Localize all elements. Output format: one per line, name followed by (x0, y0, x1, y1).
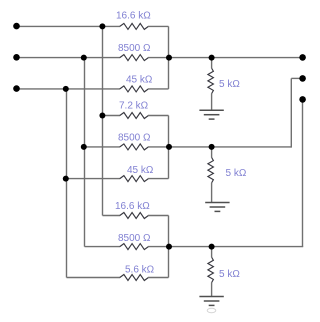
faint ellipse artifact under ground 3 (207, 308, 216, 312)
wire lead-out R5 (148, 146, 169, 148)
junction node J3 (63, 86, 69, 92)
group3 right bus wire (168, 216, 170, 278)
svg-text:5 kΩ: 5 kΩ (219, 79, 240, 90)
junction node J6 (99, 113, 105, 119)
input terminal 1 (13, 23, 20, 30)
resistor R6 value 45 kohm (120, 176, 149, 182)
left input bus wire C (66, 89, 68, 278)
svg-text:16.6 kΩ: 16.6 kΩ (116, 11, 151, 22)
junction node J2 (81, 55, 87, 61)
svg-text:45 kΩ: 45 kΩ (127, 165, 154, 176)
wire lead-out R3 (148, 88, 169, 90)
wire lead-out R9 (148, 277, 169, 279)
resistor R5 value 8500 ohm (120, 144, 149, 150)
wire: group2 riser to output terminal 2 (290, 78, 292, 147)
svg-text:8500 Ω: 8500 Ω (118, 133, 151, 144)
output terminal 1 (299, 54, 306, 61)
junction node J4 (166, 55, 172, 61)
resistor R7 value 16.6 kohm (120, 213, 149, 219)
junction node J10 (209, 144, 215, 150)
wire: RS2 bottom lead (211, 183, 213, 203)
junction node J12 (209, 244, 215, 250)
wire: group3 riser to output terminal 3 (302, 99, 304, 246)
wire: RS1 top lead (211, 58, 213, 69)
svg-text:8500 Ω: 8500 Ω (118, 43, 151, 54)
wire: RS1 bottom lead (211, 94, 213, 111)
wire lead-out R2 (148, 57, 169, 59)
svg-text:7.2 kΩ: 7.2 kΩ (119, 101, 149, 112)
resistor R8 value 8500 ohm (120, 244, 149, 250)
wire lead-in R1 (17, 25, 121, 27)
svg-text:5.6 kΩ: 5.6 kΩ (125, 265, 155, 276)
left input bus wire B (84, 58, 86, 247)
resistor RS3 5 kohm shunt (208, 257, 214, 283)
resistor R1 value 16.6 kohm (120, 23, 149, 29)
resistor RS1 5 kohm shunt (208, 68, 214, 94)
resistor RS2 5 kohm shunt (208, 157, 214, 183)
group2 right bus wire (168, 116, 170, 179)
output terminal 3 (299, 96, 306, 103)
input terminal 3 (13, 85, 20, 92)
ground (199, 110, 223, 119)
junction node J5 (209, 55, 215, 61)
wire lead-out R4 (148, 115, 169, 117)
junction node J11 (166, 244, 172, 250)
wire lead-out R6 (148, 178, 169, 180)
wire lead-in R7 (103, 215, 121, 217)
wire: group2 output row (169, 146, 292, 148)
wire: group3 output row (169, 246, 304, 248)
svg-text:16.6 kΩ: 16.6 kΩ (115, 201, 150, 212)
wire lead-in R6 (67, 178, 121, 180)
wire lead-out R8 (148, 246, 169, 248)
wire lead-in R9 (67, 277, 121, 279)
wire: RS2 top lead (211, 147, 213, 158)
junction node J9 (166, 144, 172, 150)
input terminal 2 (13, 54, 20, 61)
resistor R9 value 5.6 kohm (120, 275, 149, 281)
wire lead-in R5 (85, 146, 121, 148)
wire lead-in R2 (17, 57, 121, 59)
ground (199, 297, 223, 306)
svg-text:5 kΩ: 5 kΩ (219, 269, 240, 280)
group1 right bus wire (168, 26, 170, 89)
resistor R2 value 8500 ohm (120, 55, 149, 61)
wire lead-in R8 (85, 246, 121, 248)
svg-text:45 kΩ: 45 kΩ (126, 75, 153, 86)
wire lead-out R1 (148, 25, 169, 27)
junction node J7 (81, 144, 87, 150)
svg-text:8500 Ω: 8500 Ω (118, 233, 151, 244)
svg-text:5 kΩ: 5 kΩ (226, 168, 247, 179)
wire: RS3 bottom lead (211, 283, 213, 297)
ground (205, 203, 229, 212)
wire lead-in R4 (103, 115, 121, 117)
junction node J8 (63, 176, 69, 182)
wire: group1 output row to terminal 1 (169, 57, 303, 59)
resistor R4 value 7.2 kohm (120, 113, 149, 119)
wire lead-out R7 (148, 215, 169, 217)
resistor R3 value 45 kohm (120, 86, 149, 92)
junction node J1 (99, 23, 105, 29)
left input bus wire A (102, 26, 104, 215)
output terminal 2 (299, 75, 306, 82)
wire: RS3 top lead (211, 247, 213, 258)
wire lead-in R3 (17, 88, 121, 90)
